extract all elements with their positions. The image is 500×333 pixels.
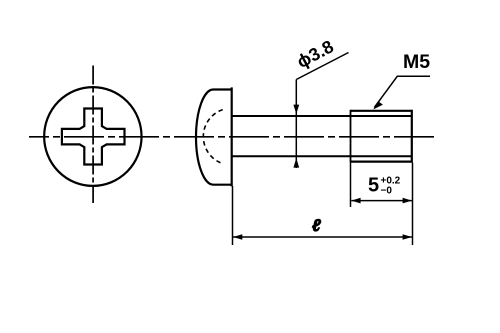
thread crest top line xyxy=(351,110,413,112)
pan head (side view) xyxy=(196,90,231,185)
svg-text:M5: M5 xyxy=(403,51,430,73)
head bearing face line xyxy=(231,87,233,186)
overall length dimension line xyxy=(233,236,412,238)
screw end face line xyxy=(411,110,413,163)
thread length left arrowhead xyxy=(351,198,360,204)
shank top line xyxy=(232,115,412,117)
phillips cross recess (front view) xyxy=(62,109,125,165)
horizontal centerline xyxy=(29,136,435,138)
extension line below screw end xyxy=(412,163,414,245)
thread length right arrowhead xyxy=(403,198,412,204)
thread length dimension line xyxy=(351,200,412,202)
vertical centerline xyxy=(92,66,94,204)
overall length right arrowhead xyxy=(403,234,412,240)
dia 3.8 bottom arrowhead xyxy=(293,158,299,167)
overall length left arrowhead xyxy=(233,234,242,240)
thread runout line xyxy=(350,110,352,163)
hidden recess arc (dashed) xyxy=(203,110,222,164)
dia 3.8 top arrowhead xyxy=(293,105,299,114)
shank bottom line xyxy=(232,155,412,157)
svg-text:ϕ3.8: ϕ3.8 xyxy=(293,36,336,72)
extension line below head face xyxy=(232,186,234,245)
M5 leader arrowhead xyxy=(373,101,383,109)
M5 leader line xyxy=(374,76,430,107)
dia 3.8 leader line xyxy=(296,53,348,80)
svg-text:−0: −0 xyxy=(381,186,393,197)
svg-text:5: 5 xyxy=(368,175,379,197)
head outline circle (front view) xyxy=(44,87,141,186)
dia 3.8 dimension vertical line xyxy=(295,80,297,169)
svg-text:ℓ: ℓ xyxy=(312,216,321,235)
extension line below thread start xyxy=(350,163,352,207)
thread crest bottom line xyxy=(351,161,413,163)
